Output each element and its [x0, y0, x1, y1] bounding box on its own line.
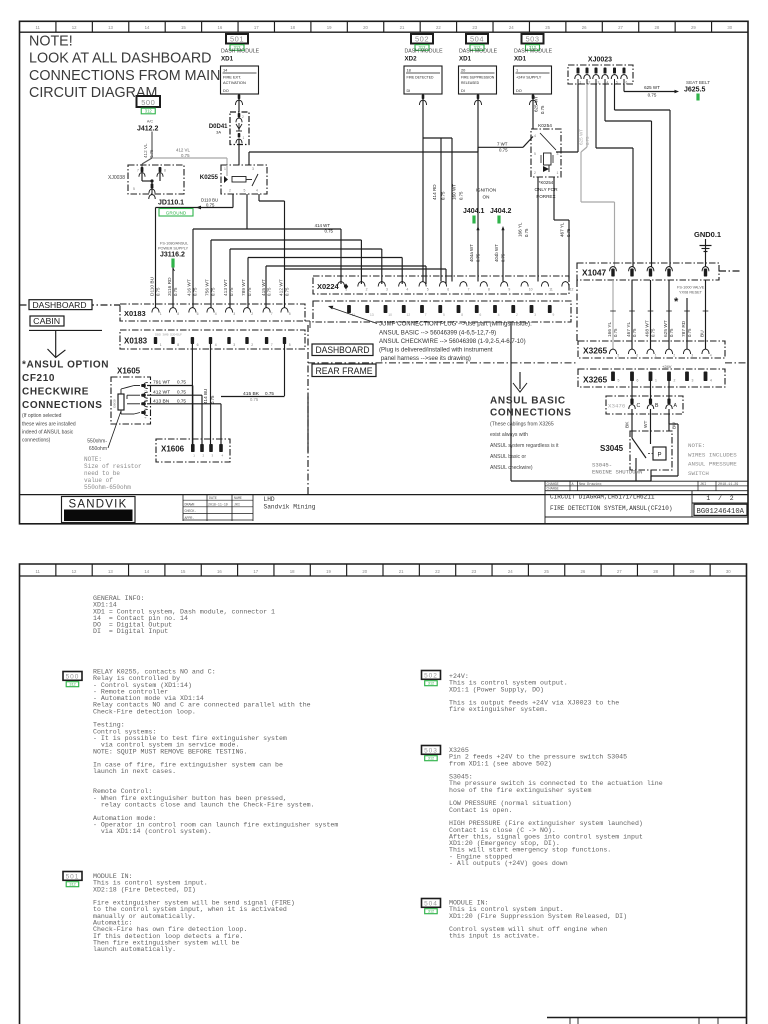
- svg-text:0.75: 0.75: [651, 328, 656, 337]
- svg-text:0.75: 0.75: [324, 229, 333, 234]
- svg-text:exist always with: exist always with: [490, 432, 528, 438]
- svg-text:6: 6: [447, 288, 449, 292]
- svg-text:2: 2: [366, 288, 368, 292]
- svg-text:468 WT: 468 WT: [645, 320, 651, 337]
- svg-text:5: 5: [289, 343, 291, 347]
- svg-text:DASH MODULE: DASH MODULE: [221, 48, 260, 54]
- svg-text:NOTE:: NOTE:: [84, 456, 102, 463]
- svg-text:502: 502: [424, 673, 438, 680]
- svg-text:NOTE!: NOTE!: [29, 34, 73, 50]
- svg-text:REAR FRAME: REAR FRAME: [316, 366, 373, 376]
- svg-text:5: 5: [133, 187, 135, 191]
- svg-text:2: 2: [589, 81, 591, 85]
- svg-text:27: 27: [618, 25, 623, 30]
- svg-text:DO: DO: [223, 88, 229, 93]
- svg-text:26: 26: [582, 25, 587, 30]
- svg-text:XJ0038: XJ0038: [108, 175, 125, 181]
- svg-text:X1047: X1047: [582, 268, 607, 278]
- svg-text:SANDVIK: SANDVIK: [69, 499, 128, 511]
- svg-text:LHD: LHD: [264, 496, 275, 503]
- svg-text:IGNITION: IGNITION: [476, 188, 496, 193]
- svg-text:5: 5: [618, 379, 620, 383]
- svg-text:OBGB: OBGB: [113, 399, 117, 408]
- svg-text:23: 23: [471, 569, 476, 574]
- svg-text:GND0.1: GND0.1: [694, 230, 721, 239]
- svg-text:4: 4: [534, 134, 536, 138]
- svg-text:500: 500: [66, 674, 80, 681]
- svg-text:CHECK.: CHECK.: [185, 509, 197, 513]
- svg-text:DASHBOARD: DASHBOARD: [33, 300, 87, 310]
- svg-text:1: 1: [655, 354, 657, 358]
- svg-text:12: 12: [407, 313, 411, 317]
- svg-text:5: 5: [617, 354, 619, 358]
- svg-text:8: 8: [177, 312, 179, 316]
- svg-text:6: 6: [637, 379, 639, 383]
- svg-text:J404.2: J404.2: [490, 208, 512, 215]
- svg-text:414 RD: 414 RD: [432, 184, 437, 200]
- svg-text:2018-11-29: 2018-11-29: [718, 483, 738, 487]
- svg-text:+24V SUPPLY: +24V SUPPLY: [516, 74, 542, 79]
- svg-text:NOTE:: NOTE:: [688, 442, 705, 449]
- svg-text:1 / 2: 1 / 2: [706, 495, 733, 502]
- svg-text:1: 1: [516, 68, 518, 73]
- svg-text:4: 4: [607, 81, 609, 85]
- svg-text:0.75: 0.75: [524, 228, 529, 237]
- svg-text:21: 21: [400, 25, 405, 30]
- svg-text:CABIN: CABIN: [33, 316, 60, 326]
- svg-text:13: 13: [108, 25, 113, 30]
- svg-text:13: 13: [370, 313, 374, 317]
- svg-text:X3265: X3265: [583, 375, 608, 385]
- svg-text:15: 15: [181, 25, 186, 30]
- svg-text:ANSUL BASIC: ANSUL BASIC: [490, 396, 566, 407]
- svg-text:2: 2: [242, 115, 244, 119]
- svg-text:XD1: XD1: [459, 56, 472, 63]
- svg-text:1: 1: [160, 343, 162, 347]
- svg-text:JD110.1: JD110.1: [158, 200, 184, 207]
- svg-text:0.75: 0.75: [177, 390, 186, 395]
- svg-text:312: 312: [428, 682, 434, 686]
- svg-text:4: 4: [256, 189, 258, 193]
- svg-text:25: 25: [544, 569, 549, 574]
- svg-text:625 WT: 625 WT: [644, 85, 660, 90]
- svg-text:23: 23: [472, 25, 477, 30]
- svg-text:791 WT: 791 WT: [153, 380, 170, 386]
- svg-text:APPR.: APPR.: [185, 516, 195, 520]
- svg-text:ANSUL CHECKWIRE --> 56046398 (: ANSUL CHECKWIRE --> 56046398 (1-9,2-5,4-…: [379, 338, 526, 345]
- svg-text:3: 3: [557, 152, 559, 156]
- svg-text:24: 24: [508, 569, 513, 574]
- svg-text:need to be: need to be: [84, 470, 120, 477]
- svg-text:2: 2: [251, 343, 253, 347]
- svg-text:27: 27: [617, 569, 622, 574]
- svg-text:1: 1: [345, 288, 347, 292]
- svg-text:X3476: X3476: [608, 403, 626, 410]
- svg-text:0.75: 0.75: [476, 253, 481, 262]
- svg-text:DI: DI: [461, 88, 465, 93]
- svg-text:16: 16: [217, 25, 222, 30]
- svg-text:0.75: 0.75: [149, 149, 154, 158]
- svg-text:5: 5: [443, 313, 445, 317]
- svg-text:2: 2: [229, 189, 231, 193]
- svg-text:FS-1000 VALVE: FS-1000 VALVE: [677, 286, 705, 290]
- svg-text:JKI: JKI: [234, 503, 240, 507]
- svg-text:787 RD: 787 RD: [681, 320, 687, 337]
- svg-text:3: 3: [386, 288, 388, 292]
- svg-text:414 BU: 414 BU: [203, 389, 208, 404]
- svg-text:FORREX: FORREX: [536, 194, 555, 199]
- svg-text:12: 12: [72, 569, 77, 574]
- svg-text:(These cablings from X3265: (These cablings from X3265: [490, 421, 554, 427]
- svg-text:YX08 RESET: YX08 RESET: [679, 291, 703, 295]
- svg-text:X1606: X1606: [161, 445, 185, 454]
- svg-text:15: 15: [181, 569, 186, 574]
- svg-text:*ANSUL OPTION: *ANSUL OPTION: [22, 359, 109, 370]
- svg-text:S3045-: S3045-: [592, 462, 612, 469]
- svg-text:0.75: 0.75: [211, 287, 216, 296]
- svg-text:6: 6: [626, 81, 628, 85]
- svg-text:4: 4: [215, 312, 217, 316]
- svg-text:0.75: 0.75: [267, 287, 272, 296]
- svg-text:WIRES INCLUDES: WIRES INCLUDES: [688, 451, 737, 458]
- svg-text:3: 3: [691, 354, 693, 358]
- svg-text:0.75: 0.75: [540, 105, 545, 114]
- svg-text:24: 24: [509, 25, 514, 30]
- svg-text:14: 14: [145, 25, 150, 30]
- svg-text:30: 30: [727, 25, 732, 30]
- svg-text:550ohm-: 550ohm-: [87, 439, 107, 445]
- svg-text:10: 10: [388, 313, 392, 317]
- svg-text:WT: WT: [643, 420, 649, 428]
- svg-text:2: 2: [251, 312, 253, 316]
- svg-text:*K0254: *K0254: [539, 180, 554, 185]
- svg-text:XD2: XD2: [405, 56, 418, 63]
- svg-text:JUMP CONNECTION PLUG -->use pa: JUMP CONNECTION PLUG -->use part (wiring…: [379, 321, 532, 328]
- svg-text:166 YL: 166 YL: [518, 222, 523, 237]
- svg-text:0.75: 0.75: [687, 328, 692, 337]
- svg-text:*: *: [674, 296, 679, 308]
- svg-text:ENGINE SHUTDOWN: ENGINE SHUTDOWN: [592, 469, 642, 476]
- svg-text:3: 3: [252, 167, 254, 171]
- svg-text:CONNECTIONS FROM MAIN: CONNECTIONS FROM MAIN: [29, 68, 220, 84]
- svg-text:0.75: 0.75: [192, 287, 197, 296]
- svg-text:CONNECTIONS: CONNECTIONS: [490, 408, 572, 419]
- svg-text:1: 1: [160, 312, 162, 316]
- svg-text:2: 2: [674, 379, 676, 383]
- svg-text:connections): connections): [22, 438, 51, 444]
- svg-text:indeed of ANSUL basic: indeed of ANSUL basic: [22, 429, 74, 435]
- svg-text:4: 4: [406, 288, 408, 292]
- svg-text:0.75: 0.75: [250, 397, 259, 402]
- svg-text:13: 13: [108, 569, 113, 574]
- svg-text:0.75: 0.75: [177, 398, 186, 403]
- svg-text:FIRE SUPPRESSION: FIRE SUPPRESSION: [461, 75, 495, 79]
- svg-text:DASH MODULE: DASH MODULE: [405, 48, 444, 54]
- svg-text:160 WT: 160 WT: [452, 184, 457, 200]
- svg-text:panel harness -->see its drawi: panel harness -->see its drawing): [379, 355, 471, 362]
- svg-text:8: 8: [461, 313, 463, 317]
- svg-text:7 WT: 7 WT: [497, 142, 508, 147]
- svg-text:312: 312: [428, 910, 434, 914]
- svg-text:0.75: 0.75: [285, 287, 290, 296]
- svg-text:1: 1: [243, 136, 245, 140]
- svg-text:POWER SUPPLY: POWER SUPPLY: [158, 247, 189, 251]
- svg-text:X3265: X3265: [583, 346, 608, 356]
- svg-text:6: 6: [636, 354, 638, 358]
- svg-text:18: 18: [290, 569, 295, 574]
- svg-text:0.75: 0.75: [669, 328, 674, 337]
- svg-text:DATE: DATE: [209, 496, 217, 500]
- svg-text:X0183: X0183: [124, 309, 146, 318]
- svg-text:0.75: 0.75: [613, 328, 618, 337]
- svg-text:DBD 3WB D204SLF: DBD 3WB D204SLF: [155, 333, 182, 337]
- svg-text:0.75: 0.75: [181, 153, 190, 158]
- svg-text:412 VL: 412 VL: [176, 148, 190, 153]
- svg-text:1: 1: [224, 167, 226, 171]
- svg-text:467 YL: 467 YL: [626, 322, 632, 337]
- svg-text:5: 5: [427, 288, 429, 292]
- svg-text:11: 11: [35, 25, 40, 30]
- svg-text:J625.5: J625.5: [684, 87, 706, 94]
- svg-text:0.75: 0.75: [648, 93, 657, 98]
- svg-text:GROUND: GROUND: [166, 210, 187, 215]
- svg-text:4: 4: [498, 313, 500, 317]
- svg-text:BU: BU: [700, 330, 706, 337]
- svg-text:XJ0023: XJ0023: [588, 57, 612, 64]
- svg-text:4: 4: [215, 343, 217, 347]
- svg-text:0.75: 0.75: [499, 148, 508, 153]
- svg-text:S3045: S3045: [600, 444, 624, 453]
- svg-text:7: 7: [271, 312, 273, 316]
- svg-text:K0255: K0255: [200, 174, 219, 181]
- svg-text:Sandvik Mining: Sandvik Mining: [264, 504, 316, 511]
- svg-text:18: 18: [407, 68, 411, 73]
- svg-text:New Drawing: New Drawing: [579, 482, 601, 487]
- svg-text:412 VL: 412 VL: [143, 143, 148, 158]
- svg-text:0.75: 0.75: [210, 395, 215, 404]
- svg-text:19: 19: [326, 569, 331, 574]
- svg-text:0.75: 0.75: [265, 391, 274, 396]
- svg-text:21: 21: [399, 569, 404, 574]
- svg-text:CHANGE: CHANGE: [547, 488, 559, 492]
- svg-text:B: B: [655, 403, 659, 409]
- svg-text:404a WT: 404a WT: [469, 244, 474, 262]
- svg-text:7: 7: [468, 288, 470, 292]
- svg-text:16: 16: [217, 569, 222, 574]
- svg-text:2: 2: [673, 354, 675, 358]
- svg-text:3: 3: [692, 379, 694, 383]
- svg-text:29: 29: [690, 569, 695, 574]
- svg-text:DRAWN: DRAWN: [185, 503, 195, 507]
- svg-text:19: 19: [327, 25, 332, 30]
- svg-text:X1605: X1605: [117, 367, 141, 376]
- svg-text:DI: DI: [407, 88, 411, 93]
- svg-text:5: 5: [616, 81, 618, 85]
- svg-text:2: 2: [534, 171, 536, 175]
- svg-text:467 YL: 467 YL: [560, 222, 565, 237]
- svg-text:7: 7: [137, 169, 139, 173]
- svg-text:0.75: 0.75: [229, 287, 234, 296]
- svg-text:SWITCH: SWITCH: [688, 470, 709, 477]
- svg-text:ANSUL BASIC --> 56046399 (4-6,: ANSUL BASIC --> 56046399 (4-6,5-12,7-9): [379, 329, 496, 336]
- svg-text:ON: ON: [483, 195, 490, 200]
- svg-text:25: 25: [545, 25, 550, 30]
- svg-text:312: 312: [69, 883, 75, 887]
- svg-text:FIRE EXT.: FIRE EXT.: [223, 74, 241, 79]
- svg-text:0.75: 0.75: [173, 287, 178, 296]
- svg-text:1: 1: [580, 81, 582, 85]
- svg-text:XD1: XD1: [221, 56, 234, 63]
- svg-text:412 WT: 412 WT: [153, 390, 170, 396]
- svg-text:BK: BK: [625, 421, 631, 428]
- svg-text:ANSUL basic or: ANSUL basic or: [490, 454, 526, 460]
- svg-text:7: 7: [425, 313, 427, 317]
- svg-text:502: 502: [415, 34, 429, 43]
- svg-text:DASH MODULE: DASH MODULE: [514, 48, 553, 54]
- svg-text:SEAT BELT: SEAT BELT: [686, 80, 710, 85]
- svg-text:9: 9: [553, 313, 555, 317]
- svg-text:NAME: NAME: [234, 496, 242, 500]
- svg-text:28: 28: [653, 569, 658, 574]
- svg-text:14: 14: [144, 569, 149, 574]
- svg-text:FIRE DETECTED: FIRE DETECTED: [407, 75, 434, 79]
- svg-text:3A: 3A: [216, 130, 221, 135]
- svg-text:30: 30: [726, 569, 731, 574]
- svg-text:504: 504: [470, 34, 484, 43]
- svg-text:4: 4: [710, 379, 712, 383]
- svg-text:CONNECTIONS: CONNECTIONS: [22, 400, 103, 411]
- svg-text:CF210: CF210: [22, 373, 55, 384]
- svg-text:+24V: +24V: [662, 364, 672, 369]
- svg-text:0.75: 0.75: [247, 287, 252, 296]
- svg-text:(Plug is delivered/installed w: (Plug is delivered/installed with instru…: [379, 347, 493, 354]
- svg-text:2: 2: [516, 313, 518, 317]
- svg-text:LOOK AT ALL DASHBOARD: LOOK AT ALL DASHBOARD: [29, 51, 212, 67]
- svg-text:JKI: JKI: [700, 483, 706, 487]
- svg-text:28: 28: [655, 25, 660, 30]
- svg-text:ANSUL checkwire): ANSUL checkwire): [490, 465, 533, 471]
- svg-text:X0224: X0224: [317, 282, 340, 291]
- svg-text:5: 5: [244, 189, 246, 193]
- svg-text:FS-1080/ANSUL: FS-1080/ANSUL: [160, 242, 188, 246]
- svg-text:17: 17: [254, 25, 259, 30]
- svg-text:8: 8: [164, 169, 166, 173]
- svg-text:0.75: 0.75: [206, 203, 215, 208]
- svg-text:29: 29: [691, 25, 696, 30]
- svg-text:625 WT: 625 WT: [663, 320, 669, 337]
- svg-text:20: 20: [363, 25, 368, 30]
- svg-text:3: 3: [598, 81, 600, 85]
- svg-text:A: A: [674, 403, 678, 409]
- svg-text:22: 22: [436, 25, 441, 30]
- svg-text:Size of resistor: Size of resistor: [84, 463, 142, 470]
- svg-text:0.75: 0.75: [177, 380, 186, 385]
- svg-text:DASHBOARD: DASHBOARD: [316, 345, 370, 355]
- svg-text:P: P: [657, 453, 661, 459]
- svg-text:650ohm: 650ohm: [89, 446, 107, 452]
- svg-text:DO: DO: [516, 88, 522, 93]
- svg-text:2018-11-19: 2018-11-19: [208, 503, 228, 507]
- svg-text:C: C: [637, 403, 641, 409]
- svg-text:6: 6: [480, 313, 482, 317]
- svg-text:5: 5: [289, 312, 291, 316]
- svg-text:BU: BU: [671, 422, 677, 429]
- svg-text:3: 3: [534, 313, 536, 317]
- svg-text:18: 18: [290, 25, 295, 30]
- svg-text:414 WT: 414 WT: [315, 223, 331, 228]
- svg-text:501: 501: [230, 34, 244, 43]
- svg-text:BG01246410A: BG01246410A: [697, 508, 745, 516]
- svg-text:7: 7: [271, 343, 273, 347]
- svg-text:these wires are installed: these wires are installed: [22, 421, 76, 427]
- svg-text:0.75: 0.75: [632, 328, 637, 337]
- svg-text:CHANGE: CHANGE: [547, 483, 559, 487]
- svg-text:625 WT: 625 WT: [534, 96, 539, 112]
- svg-text:166 YL: 166 YL: [607, 322, 613, 337]
- svg-text:J404.1: J404.1: [463, 208, 485, 215]
- svg-text:6: 6: [197, 343, 199, 347]
- svg-text:0.75: 0.75: [441, 191, 446, 200]
- svg-text:3: 3: [233, 312, 235, 316]
- svg-text:J3116.2: J3116.2: [160, 252, 185, 259]
- svg-text:550ohm-650ohm: 550ohm-650ohm: [84, 484, 131, 491]
- svg-text:4: 4: [710, 354, 712, 358]
- svg-text:0.75: 0.75: [459, 191, 464, 200]
- svg-text:312: 312: [145, 109, 153, 114]
- svg-text:11: 11: [35, 569, 40, 574]
- svg-text:20: 20: [362, 569, 367, 574]
- svg-text:5: 5: [534, 152, 536, 156]
- svg-text:ACTIVATION: ACTIVATION: [223, 80, 246, 85]
- svg-text:X0183: X0183: [124, 337, 148, 346]
- svg-text:500: 500: [141, 98, 155, 107]
- svg-text:9: 9: [508, 288, 510, 292]
- svg-text:FIRE DETECTION SYSTEM,ANSUL(CF: FIRE DETECTION SYSTEM,ANSUL(CF210): [550, 505, 672, 512]
- svg-text:ANSUL system regardless is it: ANSUL system regardless is it: [490, 443, 559, 449]
- svg-text:DASH MODULE: DASH MODULE: [459, 48, 498, 54]
- svg-text:26: 26: [581, 569, 586, 574]
- svg-text:17: 17: [253, 569, 258, 574]
- svg-text:8: 8: [488, 288, 490, 292]
- svg-text:A/C: A/C: [147, 120, 154, 124]
- svg-text:10: 10: [529, 288, 533, 292]
- svg-text:12: 12: [72, 25, 77, 30]
- svg-text:J412.2: J412.2: [137, 126, 159, 133]
- svg-text:value of: value of: [84, 477, 113, 484]
- svg-text:1: 1: [655, 379, 657, 383]
- svg-text:K0254: K0254: [538, 123, 552, 129]
- svg-text:6: 6: [197, 312, 199, 316]
- svg-text:CHECKWIRE: CHECKWIRE: [22, 387, 89, 398]
- svg-text:XD1: XD1: [514, 56, 527, 63]
- svg-text:CIRCUIT DIAGRAM: CIRCUIT DIAGRAM: [29, 85, 157, 101]
- svg-text:0.75: 0.75: [501, 253, 506, 262]
- svg-text:3: 3: [233, 343, 235, 347]
- svg-text:503: 503: [424, 748, 438, 755]
- svg-text:504: 504: [424, 901, 438, 908]
- svg-text:501: 501: [66, 874, 80, 881]
- svg-text:12: 12: [570, 288, 574, 292]
- svg-text:RELEASED: RELEASED: [461, 81, 480, 85]
- svg-text:415 BK: 415 BK: [243, 391, 260, 397]
- svg-text:404b WT: 404b WT: [494, 244, 499, 262]
- svg-text:ANSUL PRESSURE: ANSUL PRESSURE: [688, 461, 737, 468]
- svg-text:22: 22: [435, 569, 440, 574]
- svg-text:413 BN: 413 BN: [153, 398, 170, 404]
- svg-text:625 WT: 625 WT: [579, 129, 584, 145]
- svg-text:CIRCUIT DIAGRAM,LH517i/LH6211: CIRCUIT DIAGRAM,LH517i/LH6211: [550, 494, 655, 501]
- svg-text:1: 1: [557, 171, 559, 175]
